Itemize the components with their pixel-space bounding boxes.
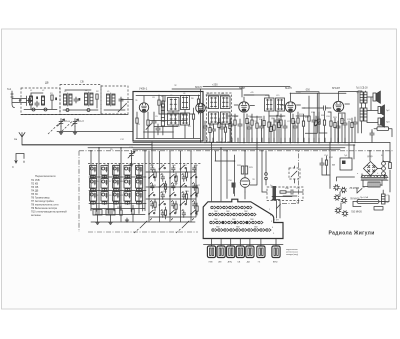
wire switch gang column 3: [169, 151, 171, 222]
svg-text:колодок (вид): колодок (вид): [286, 254, 298, 256]
switch П10 pickup: [277, 204, 281, 209]
capacitor aux: [220, 122, 224, 143]
svg-text:УКВ: УКВ: [208, 262, 213, 264]
pin 6 connector contact: [241, 206, 246, 209]
resistor aux: [334, 118, 336, 143]
capacitor C3: [74, 97, 78, 103]
resistor switch matrix: [164, 184, 166, 189]
switch contact П3: [169, 210, 176, 220]
switch assembly top rail: [88, 163, 202, 165]
inductor L2: [42, 96, 45, 105]
switch contact П4: [180, 201, 187, 211]
switch contact П2: [159, 183, 166, 193]
svg-text:Гр1 1ГД-28: Гр1 1ГД-28: [356, 88, 368, 90]
svg-text:ВНЧ: ВНЧ: [273, 262, 278, 264]
coil transformer L12: [209, 112, 219, 124]
lamp Л8 dial illumination: [334, 185, 360, 193]
switch section contact group S2: [90, 179, 97, 192]
resistor aux: [341, 114, 343, 143]
loudspeaker Гр1: [373, 91, 381, 104]
wire B+ rail: [290, 92, 346, 94]
switch section contact group S1: [90, 166, 97, 179]
capacitor aux: [238, 119, 242, 143]
capacitor switch cell: [193, 202, 197, 209]
diode Д1 detector: [268, 111, 270, 142]
svg-text:ЛВ2: ЛВ2: [254, 227, 258, 229]
connector Гн1 external antenna jack: [7, 87, 27, 108]
transformer Тр1 core and windings: [361, 178, 388, 181]
switch contact П3: [169, 192, 176, 202]
capacitor switch cell: [172, 202, 176, 209]
svg-text:Ш: Ш: [381, 155, 383, 157]
switch section contact group S14: [136, 179, 143, 192]
capacitor C1 antenna coupling: [27, 98, 33, 102]
transformer L4: [85, 92, 94, 106]
capacitor switch cell: [161, 211, 165, 218]
svg-text:6И1П: 6И1П: [195, 85, 202, 89]
wire tuner return rail: [57, 131, 133, 133]
resistor R1: [51, 95, 53, 109]
resistor R26: [389, 163, 392, 169]
variable capacitor C6 below UKV: [128, 151, 135, 167]
wire V5 leads: [339, 92, 359, 143]
coil transformer L8 lower: [168, 113, 180, 125]
resistor R15: [302, 114, 304, 142]
wire box2 bottom: [63, 90, 98, 110]
variable capacitor C1b tuning gang: [72, 119, 85, 135]
junction dots on buses: [90, 142, 384, 162]
resistor switch matrix: [175, 204, 177, 209]
svg-text:АПЧ: АПЧ: [228, 261, 233, 264]
svg-text:ЛВ2: ЛВ2: [250, 219, 254, 221]
wire AGC bus: [88, 147, 345, 149]
capacitor C12 coupling: [304, 106, 332, 110]
band unit L1 L2 dashed box (KB): [21, 88, 60, 115]
mechanical link dashed tuning: [48, 122, 72, 135]
trimmer capacitor C2a: [32, 108, 47, 111]
chassis dash-dot boundary horizontal: [79, 150, 394, 152]
capacitor switch cell: [182, 193, 186, 200]
capacitor C16 padder: [106, 210, 115, 221]
IF unit dashed box: [207, 93, 232, 142]
resistor R22a: [132, 205, 134, 222]
capacitor aux: [247, 122, 251, 143]
capacitor switch cell: [182, 211, 186, 218]
wire links to connector: [212, 142, 263, 201]
capacitor C15 padder: [93, 210, 102, 221]
capacitor C13: [343, 113, 347, 142]
capacitor C7: [211, 124, 215, 142]
svg-text:ЛВ2: ЛВ2: [244, 211, 248, 213]
UKV FM tuner unit box: [133, 92, 203, 142]
inductor L2a core blob: [36, 97, 38, 100]
jack pins column: [378, 161, 386, 176]
wire lower rail of band boxes: [21, 114, 128, 116]
svg-text:Д2-Д5: Д2-Д5: [367, 156, 374, 158]
capacitor switch cell: [161, 193, 165, 200]
resistor aux: [292, 114, 294, 143]
coil transformer L13: [221, 112, 231, 124]
pin 32 connector contact: [254, 229, 259, 232]
capacitor aux: [353, 117, 357, 143]
svg-text:Ан: Ан: [14, 137, 18, 141]
pin 12 connector contact: [233, 213, 238, 216]
svg-text:СВ: СВ: [80, 80, 84, 84]
labels component designators: [30, 85, 390, 211]
wire IF2: [244, 95, 278, 116]
inductor L1: [30, 93, 33, 109]
resistor R12: [273, 118, 275, 142]
wire speaker feeds: [373, 97, 378, 122]
resistor switch matrix: [185, 194, 187, 199]
pin 34 connector contact: [266, 229, 271, 232]
coil transformer L7: [181, 96, 190, 110]
resistor R4: [147, 112, 149, 138]
pin 33 connector contact: [260, 229, 265, 232]
pin 17 connector contact: [216, 221, 221, 224]
pin 21 connector contact: [240, 221, 245, 224]
switch contact П1: [148, 210, 155, 220]
capacitor C9: [259, 119, 263, 142]
wire phono: [262, 192, 303, 196]
note text right of sockets: [286, 249, 298, 256]
resistor R8: [224, 124, 226, 142]
wire lamp chain: [337, 177, 355, 209]
capacitor switch cell: [151, 184, 155, 191]
switch contact П1: [148, 174, 155, 184]
svg-text:ТР: ТР: [332, 164, 335, 167]
resistor box Авт: [374, 127, 392, 137]
loudspeaker Гр3: [378, 116, 390, 127]
wire switch gang column 4: [180, 151, 182, 222]
resistor R22: [241, 166, 244, 174]
socket ГЗ connector receptacle: [257, 239, 265, 264]
switch section contact group S11: [124, 179, 131, 192]
socket ВНЧ connector receptacle: [272, 239, 280, 264]
wire switch bus verticals: [91, 148, 145, 214]
svg-text:+250: +250: [212, 84, 218, 87]
resistor R14: [297, 112, 299, 142]
pin 29 connector contact: [236, 229, 241, 232]
pin 19 connector contact: [228, 221, 233, 224]
svg-text:ЛВ2: ЛВ2: [232, 219, 236, 221]
resistor R5a UKV: [162, 96, 165, 115]
wire heater bus: [133, 148, 340, 150]
resistor aux: [209, 123, 211, 143]
resistor aux: [263, 116, 265, 143]
capacitor aux: [293, 121, 297, 143]
wire antenna lead: [22, 144, 152, 146]
loudspeaker Гр2: [378, 105, 390, 116]
switch section contact group S3: [90, 192, 97, 205]
resistor R5: [158, 95, 160, 114]
coil transformer L15 IF2: [276, 98, 285, 111]
trimmer capacitor C3a: [66, 109, 90, 112]
inductor L6a FM coil tall: [161, 100, 164, 135]
capacitor switch cell: [161, 175, 165, 182]
legend switch list: [31, 174, 67, 217]
switch section contact group S12: [124, 192, 131, 205]
wire V2 leads: [201, 89, 210, 143]
switch section contact group S7: [113, 166, 120, 179]
wire box1 bottom: [24, 93, 57, 110]
chassis dash-dot pickup boundary: [282, 151, 299, 204]
switch contact П5: [190, 174, 197, 184]
resistor R17 volume: [315, 112, 320, 142]
tube V6 indicator: [240, 178, 250, 192]
wire mains cord: [353, 196, 389, 207]
switch section contact group S4: [101, 166, 108, 179]
svg-text:6П14П: 6П14П: [332, 86, 340, 90]
pin 11 connector contact: [227, 213, 232, 216]
resistor aux: [246, 114, 248, 143]
pin 13 connector contact: [239, 213, 244, 216]
pin 24 connector contact: [258, 221, 263, 224]
svg-text:ЛВ2: ЛВ2: [216, 227, 220, 229]
svg-text:ЛВ2: ЛВ2: [214, 211, 218, 213]
capacitor switch cell: [193, 166, 197, 173]
wire switch gang column 1: [148, 151, 150, 222]
tube V5 6П14П output pentode: [333, 101, 343, 111]
wire ground bus: [22, 142, 355, 166]
wire socket rail: [204, 244, 284, 246]
label pin numbers column: [269, 209, 275, 235]
pin 3 connector contact: [223, 206, 228, 209]
svg-text:Переключатели: Переключатели: [35, 174, 56, 178]
capacitor switch cell: [193, 184, 197, 191]
coil transformer L9 lower: [181, 113, 190, 125]
resistor R10: [251, 114, 253, 142]
coil transformer L11 IF1: [221, 96, 231, 109]
resistor aux: [351, 118, 353, 143]
svg-text:УКВ-1: УКВ-1: [139, 87, 148, 91]
capacitor switch cell: [172, 184, 176, 191]
coil transformer L6 FM IF: [168, 98, 180, 112]
band unit L5 dashed box: [101, 86, 128, 114]
shield bar phono: [273, 186, 277, 201]
pin 9 connector contact: [215, 213, 220, 216]
potentiometer tone dashed box: [289, 166, 300, 183]
svg-text:СВ: СВ: [237, 262, 241, 264]
svg-text:С1-а: С1-а: [65, 120, 71, 123]
pin 2 connector contact: [217, 206, 222, 209]
mains entry bar: [382, 190, 386, 204]
wire UKV feed: [121, 100, 133, 109]
label pin row texts: [214, 211, 258, 229]
resistor R24: [280, 191, 286, 193]
pin 20 connector contact: [234, 221, 239, 224]
switch contact П5: [190, 192, 197, 202]
pin 30 connector contact: [242, 229, 247, 232]
svg-text:ЧМ: ЧМ: [218, 262, 221, 264]
switch contact П4: [180, 165, 187, 175]
wire UKV internals: [136, 96, 200, 139]
svg-text:Л10 МН26: Л10 МН26: [351, 212, 363, 214]
coil transformer L14 IF2: [265, 98, 275, 111]
switch contact П5: [190, 210, 197, 220]
resistor R18: [323, 111, 325, 142]
svg-text:Л8 МН26: Л8 МН26: [350, 188, 360, 190]
capacitor C5: [152, 112, 156, 138]
socket ЧМ connector receptacle: [217, 239, 225, 264]
svg-text:6Н2П: 6Н2П: [285, 86, 292, 90]
resistor aux: [270, 122, 272, 143]
pin 28 connector contact: [230, 229, 235, 232]
capacitor aux: [203, 121, 207, 143]
pin 4 connector contact: [229, 206, 234, 209]
wire switch right horizontals: [146, 165, 198, 217]
switch contact П1: [148, 192, 155, 202]
pin 27 connector contact: [224, 229, 229, 232]
socket УКВ connector receptacle: [207, 239, 215, 264]
svg-text:Радиола Жигули: Радиола Жигули: [329, 231, 375, 237]
fuse Пр1: [353, 196, 389, 204]
wire switch gang column 5: [190, 151, 192, 222]
resistor switch matrix: [154, 172, 156, 177]
pin 16 connector contact: [210, 221, 215, 224]
socket СВ connector receptacle: [236, 239, 244, 264]
pin 23 connector contact: [252, 221, 257, 224]
svg-text:С1-б: С1-б: [79, 120, 85, 123]
pin 1 connector contact: [211, 206, 216, 209]
switch section contact group S9: [113, 192, 120, 205]
capacitor C18: [289, 190, 295, 194]
capacitor switch cell: [182, 175, 186, 182]
capacitor C4: [119, 97, 123, 109]
switch contact П4: [180, 183, 187, 193]
resistor R11: [256, 116, 258, 142]
winding secondary box: [368, 182, 380, 187]
wire V3 leads: [234, 97, 254, 143]
lamp Л9 dial illumination: [334, 195, 360, 204]
wire B+ bus: [133, 142, 390, 144]
switch contact П3: [169, 174, 176, 184]
svg-text:Л9 МН26: Л9 МН26: [350, 199, 360, 201]
svg-text:антенны: антенны: [31, 214, 41, 217]
wire UKV inner rails: [144, 121, 188, 133]
svg-text:Пр 0,5А: Пр 0,5А: [360, 196, 368, 199]
band unit L3 L4 dashed box (ДВ-СВ): [60, 85, 101, 115]
svg-text:ДВ: ДВ: [45, 81, 49, 85]
resistor R19: [330, 112, 332, 142]
capacitor C11: [312, 112, 316, 142]
transformer L5: [107, 93, 116, 106]
wire top feed bus: [172, 87, 290, 98]
resistor switch matrix: [164, 210, 166, 215]
resistor R13: [280, 114, 282, 142]
switch П9 mains: [357, 188, 362, 193]
svg-text:ЛВ2: ЛВ2: [214, 219, 218, 221]
switch contact П2: [159, 201, 166, 211]
resistor R7: [197, 95, 199, 114]
resistor R23: [245, 166, 248, 174]
lamp Л10 dial illumination: [335, 208, 362, 217]
capacitor switch cell: [151, 166, 155, 173]
pin 14 connector contact: [245, 213, 250, 216]
wire PSU verticals: [330, 121, 390, 189]
pin 5 connector contact: [235, 206, 240, 209]
capacitor C2 trimmer: [35, 101, 39, 107]
resistor R6: [192, 108, 194, 138]
connector shell outline: [203, 199, 283, 238]
wire bus drops: [207, 138, 345, 143]
pin 8 connector contact: [209, 213, 214, 216]
svg-text:ЛВ2: ЛВ2: [236, 227, 240, 229]
ground loop symbol З: [12, 154, 24, 170]
switch section contact group S10: [124, 166, 131, 179]
svg-text:Гн1: Гн1: [7, 87, 12, 91]
resistor aux: [278, 118, 280, 143]
pin filled contacts row3: [222, 221, 248, 223]
wire switch gang column 2: [159, 151, 161, 222]
socket АПЧ connector receptacle: [227, 239, 235, 264]
tube V4 6Н2П audio preamp: [285, 102, 295, 112]
resistor aux: [315, 116, 317, 143]
potentiometer UKV tuning arrow: [146, 124, 152, 130]
resistor R3: [136, 112, 138, 138]
svg-text:ЛВ2: ЛВ2: [226, 211, 230, 213]
capacitor C5a UKV: [156, 124, 160, 135]
resistor R16: [308, 96, 310, 142]
mechanical link arrows: [134, 221, 147, 233]
transformer Тр1 box: [332, 158, 352, 170]
resistor switch matrix: [196, 188, 198, 193]
switch section contact group S6: [101, 192, 108, 205]
capacitor C17 electrolytic: [232, 183, 236, 194]
connector jack pins pair: [265, 151, 268, 185]
tube V2 6И1П converter: [196, 103, 206, 113]
capacitor C19 electrolytic: [320, 158, 324, 175]
pin 31 connector contact: [248, 229, 253, 232]
socket ДВ connector receptacle: [246, 239, 254, 264]
capacitor C10: [283, 120, 287, 142]
chassis dash-dot boundary vertical: [78, 151, 80, 232]
svg-text:ДВ: ДВ: [247, 262, 250, 264]
switch section contact group S8: [113, 179, 120, 192]
resistor aux: [218, 118, 220, 143]
wire pickup leads: [272, 197, 292, 219]
core blob L4: [79, 98, 81, 101]
capacitor C14: [370, 130, 374, 143]
tube V1 6Н3П UKV: [139, 103, 148, 112]
wire output transformer leads: [358, 91, 378, 133]
plug mains: [374, 207, 383, 211]
capacitor C8: [229, 118, 233, 142]
tube V3 6К4П IF amplifier: [239, 102, 249, 112]
switch contact П2: [159, 165, 166, 175]
phono input dashed box: [267, 187, 303, 201]
capacitor aux: [275, 115, 279, 143]
resistor switch matrix: [185, 172, 187, 177]
pin 26 connector contact: [218, 229, 223, 232]
svg-text:-250: -250: [305, 89, 310, 92]
resistor switch matrix: [175, 176, 177, 181]
switch section contact group S15: [136, 192, 143, 205]
wire V6 leads: [215, 151, 245, 199]
switch section contact group S13: [136, 166, 143, 179]
resistor R2: [96, 94, 98, 108]
wire stage interconnects: [206, 95, 345, 117]
wire box3 bottom: [104, 109, 125, 111]
wire switch block bottom rail: [91, 221, 195, 223]
switch section contact group S5: [101, 179, 108, 192]
pin 25 connector contact: [212, 229, 217, 232]
resistor R25: [325, 156, 327, 175]
shielded wire volume control doubled: [296, 92, 327, 133]
ground switch left: [96, 221, 100, 225]
potentiometer arrow into UKV: [118, 104, 127, 113]
capacitor switch cell: [172, 166, 176, 173]
